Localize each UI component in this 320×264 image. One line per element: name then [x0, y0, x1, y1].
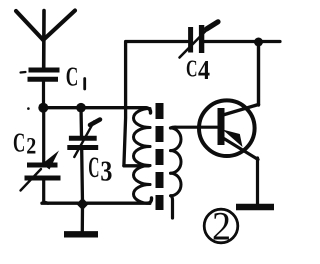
label C4: [186, 55, 210, 85]
figure number badge 2: [204, 204, 238, 249]
svg-text:4: 4: [198, 55, 210, 85]
capacitor C3 (variable): [67, 138, 98, 147]
wire: tap into coil: [124, 164, 149, 167]
C4 arrow: [180, 22, 219, 58]
capacitor C2 (variable): [25, 165, 61, 178]
label C3: [88, 151, 112, 187]
wire L2 bottom lead: [171, 196, 173, 218]
svg-text:C: C: [66, 62, 79, 92]
transformer L1 left winding: [134, 109, 151, 204]
wire top rail right segment: [204, 40, 280, 43]
wire node B down to C3: [79, 108, 83, 136]
svg-text:2: 2: [26, 133, 36, 158]
node A junction dot: [38, 103, 48, 113]
wire: top-left corner down (C4 to coil tap), crosses mid rail: [124, 42, 126, 166]
dust speck: [27, 107, 30, 110]
wire C2 to bottom rail: [44, 180, 48, 203]
label C1 subscript stroke: [83, 79, 86, 90]
C2 arrow: [21, 151, 60, 191]
svg-text:C: C: [88, 151, 99, 184]
wire L2 top lead to base: [171, 125, 218, 129]
wire bottom rail: [42, 198, 152, 203]
capacitor C1: [28, 70, 60, 79]
wire collector up to top rail: [257, 42, 260, 105]
wire top rail left segment: [126, 40, 188, 43]
transformer core (dashed): [156, 103, 164, 210]
wire C1 to node A: [42, 80, 45, 107]
wire node A down to C2: [42, 107, 45, 165]
capacitor C4 (variable): [191, 25, 202, 53]
ground (left): [64, 204, 98, 234]
svg-text:2: 2: [212, 204, 231, 249]
wire emitter down: [256, 158, 259, 205]
C3 arrow: [74, 120, 100, 158]
wire C3 to bottom rail: [80, 150, 84, 204]
svg-text:C: C: [186, 57, 198, 83]
svg-text:3: 3: [100, 156, 112, 187]
ink fleck left of C1: [21, 71, 26, 74]
wire mid rail: [43, 108, 151, 113]
svg-text:C: C: [13, 127, 25, 157]
node D junction dot (top right): [254, 38, 263, 47]
ground (right, emitter): [236, 204, 274, 210]
transistor VT1: [199, 100, 259, 159]
transformer L2 right winding: [171, 128, 182, 196]
label C1: [66, 62, 79, 92]
node C junction dot (bottom): [76, 198, 88, 210]
label C2: [13, 127, 36, 158]
antenna: [16, 11, 75, 69]
node B junction dot: [76, 103, 86, 113]
